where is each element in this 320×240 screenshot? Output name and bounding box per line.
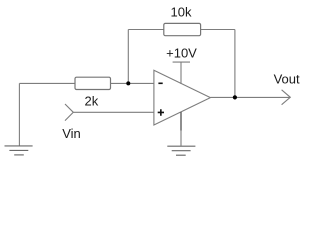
wire op-amp bottom pin to ground [180, 112, 182, 146]
wire feedback left vertical [127, 30, 129, 84]
node junction dot at output [233, 95, 237, 99]
wire feedback top right segment [201, 29, 235, 31]
wire input horizontal left segment [19, 82, 75, 84]
port Vin arrowhead [65, 104, 73, 121]
op-amp U1 triangle [154, 70, 211, 125]
op-amp plus sign [158, 109, 164, 115]
op-amp power pin stub (darker) [180, 112, 182, 131]
wire op-amp output [210, 96, 290, 98]
port Vout arrowhead [282, 90, 291, 105]
resistor R1 2k [75, 77, 111, 89]
wire Vin to op-amp non-inverting input [73, 111, 154, 113]
node junction dot at inverting input [126, 81, 130, 85]
+10V supply bar [173, 61, 190, 63]
resistor R2 10k [164, 23, 201, 35]
svg-text:Vout: Vout [274, 71, 300, 86]
ground (bottom-center) [167, 146, 195, 155]
wire feedback right vertical [234, 30, 236, 98]
wire left vertical to ground [18, 83, 20, 145]
svg-text:Vin: Vin [62, 126, 81, 141]
svg-text:10k: 10k [171, 5, 192, 20]
wire supply pin to op-amp top [180, 62, 182, 84]
wire feedback top left segment [128, 29, 163, 31]
svg-text:2k: 2k [85, 94, 99, 109]
svg-text:+10V: +10V [166, 46, 197, 61]
ground (bottom-left) [5, 146, 33, 155]
wire from R1 to op-amp inverting input [111, 82, 154, 84]
op-amp minus sign [158, 82, 162, 84]
